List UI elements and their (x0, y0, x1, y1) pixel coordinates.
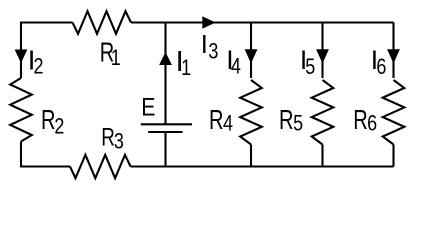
label I1 (176, 46, 192, 80)
svg-text:I: I (201, 31, 208, 59)
label I5 (300, 45, 315, 79)
svg-text:5: 5 (305, 54, 315, 79)
current arrow I4 (245, 49, 258, 63)
label R2 (41, 104, 64, 138)
resistor R3 (70, 155, 131, 178)
wire bottom segment (131, 165, 394, 167)
label R5 (279, 104, 303, 135)
svg-text:3: 3 (114, 129, 124, 154)
svg-text:2: 2 (34, 53, 44, 78)
svg-text:1: 1 (181, 55, 191, 80)
svg-text:E: E (141, 94, 155, 122)
svg-text:4: 4 (231, 54, 241, 79)
battery E bottom plate (148, 131, 182, 133)
current arrow I6 (387, 49, 400, 63)
current arrow I5 (316, 49, 329, 63)
svg-text:R: R (41, 104, 56, 135)
label R3 (101, 124, 124, 153)
wire branch-5 upper (321, 23, 323, 79)
svg-text:5: 5 (293, 111, 303, 136)
wire branch-6 lower (392, 145, 394, 167)
svg-text:1: 1 (111, 45, 121, 70)
resistor R4 (240, 80, 262, 145)
svg-text:3: 3 (208, 39, 218, 64)
wire left-bottom segment (21, 142, 70, 167)
current arrow I2 (15, 50, 28, 64)
label E (141, 94, 155, 122)
resistor R2 (10, 78, 32, 142)
wire branch-4 lower (250, 145, 252, 167)
label R4 (209, 104, 233, 135)
wire middle branch lower (164, 132, 166, 167)
wire top-right segment (131, 21, 394, 23)
current arrow I1 (159, 52, 172, 65)
svg-text:R: R (209, 104, 224, 135)
resistor R6 (383, 80, 405, 145)
wire top-left segment (21, 23, 73, 79)
wire middle branch upper (164, 23, 166, 125)
label I6 (371, 45, 387, 79)
svg-text:R: R (279, 104, 294, 135)
label I4 (226, 45, 241, 78)
svg-text:6: 6 (376, 54, 386, 79)
svg-text:2: 2 (54, 114, 64, 139)
label I3 (201, 31, 219, 64)
svg-text:6: 6 (367, 111, 377, 136)
resistor R5 (312, 80, 334, 145)
svg-text:4: 4 (223, 111, 233, 136)
battery E top plate (141, 123, 192, 125)
resistor R1 (73, 11, 132, 34)
label R1 (100, 37, 121, 70)
label I2 (28, 45, 44, 79)
wire branch-4 upper (250, 23, 252, 79)
current arrow I3 (202, 16, 215, 28)
svg-text:R: R (101, 124, 115, 151)
label R6 (353, 104, 377, 135)
svg-text:R: R (353, 104, 368, 135)
wire branch-5 lower (321, 145, 323, 167)
wire branch-6 upper (392, 23, 394, 79)
